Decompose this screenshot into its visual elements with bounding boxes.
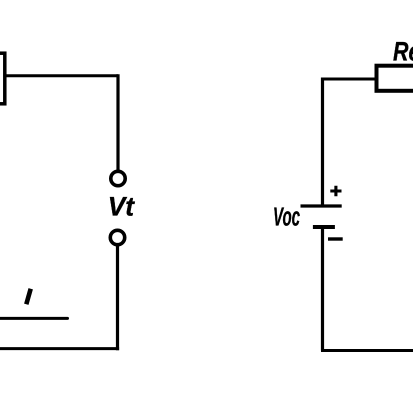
svg-text:Req: Req (393, 36, 413, 66)
svg-text:Voc: Voc (273, 202, 300, 232)
svg-text:Vt: Vt (108, 192, 135, 222)
